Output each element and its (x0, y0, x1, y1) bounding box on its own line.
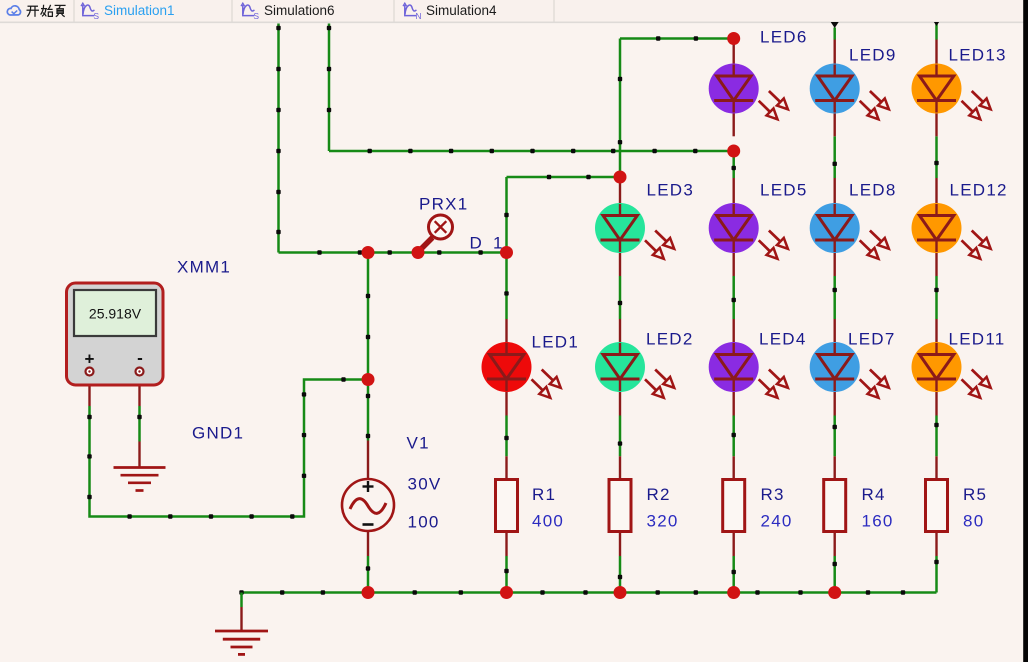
pin LED1 cathode (505, 379, 507, 416)
pin LED5 anode (733, 178, 735, 216)
wire V1 bottom to bus (367, 556, 370, 593)
svg-text:S: S (253, 11, 259, 21)
svg-text:LED1: LED1 (532, 333, 580, 352)
pin R3 bottom (733, 532, 735, 557)
pin LED4 anode (733, 319, 735, 355)
svg-text:GND1: GND1 (192, 424, 244, 443)
resistor R1 (496, 480, 518, 532)
wire LED9 top stub (833, 28, 836, 40)
wire junction dots (547, 175, 591, 179)
wire LED8 to LED7 (833, 276, 836, 319)
wire y=151 horizontal (329, 150, 734, 153)
pin R4 bottom (834, 532, 836, 557)
pin R3 top (733, 456, 735, 479)
junction bus R1 (500, 586, 513, 599)
junction bus R4 (828, 586, 841, 599)
svg-text:R5: R5 (963, 485, 987, 504)
wire R2 to bus (619, 556, 622, 593)
LED LED9 (810, 64, 889, 120)
probe PRX1 (421, 215, 453, 250)
tab Simulation6 icon (241, 3, 254, 15)
pin LED4 cathode (733, 379, 735, 416)
wire junction dots (618, 301, 622, 305)
LED LED12 (912, 203, 991, 259)
pin LED3 anode (619, 177, 621, 216)
pin V1 bottom (367, 531, 369, 556)
wire LED5 to LED4 (732, 276, 735, 319)
wire junction dots (833, 162, 837, 166)
wire junction dots (934, 288, 938, 292)
svg-text:N: N (415, 11, 421, 21)
pin LED12 anode (935, 178, 937, 216)
wire y=177 (507, 176, 621, 179)
junction PRX1 attach (412, 246, 425, 259)
svg-text:160: 160 (862, 512, 894, 531)
pin XMM1 + (88, 376, 90, 407)
wire junction dots (504, 569, 508, 573)
wire x=620 vertical to LED3 net (619, 39, 622, 178)
right edge dark panel border (1023, 0, 1028, 662)
wire junction dots (934, 161, 938, 165)
tab Simulation4 icon (403, 3, 416, 15)
pin LED9 cathode (834, 101, 836, 137)
pin LED6 cathode (733, 101, 735, 137)
pin R2 top (619, 456, 621, 479)
svg-text:R1: R1 (532, 485, 556, 504)
svg-text:Simulation4: Simulation4 (426, 3, 497, 18)
wire y=38.5 to LED6 top (620, 37, 734, 40)
resistor R3 (723, 480, 745, 532)
wire junction dots (366, 566, 370, 570)
svg-text:+: + (85, 350, 95, 369)
LED LED2 (595, 342, 674, 398)
wire LED2 to R2 (619, 416, 622, 457)
wire junction dots (327, 26, 331, 112)
wire LED7 to R4 (833, 416, 836, 457)
pin LED5 cathode (733, 240, 735, 276)
wire ground bus (242, 591, 937, 594)
junction bus R2 (614, 586, 627, 599)
pin LED13 anode (935, 40, 937, 77)
pin LED11 anode (935, 319, 937, 355)
wire junction dots (618, 441, 622, 445)
junction V1 branch (362, 246, 375, 259)
wire junction dots (504, 291, 508, 295)
wire junction dots (239, 590, 905, 594)
junction LED6 bottom (727, 145, 740, 158)
pin LED8 anode (834, 178, 836, 216)
svg-text:LED11: LED11 (949, 330, 1006, 349)
pin LED6 anode (733, 39, 735, 77)
wire junction dots (732, 166, 736, 170)
tab Simulation1 icon (81, 3, 94, 15)
wire x=506 from y=177 to D_1 (505, 177, 508, 253)
svg-text:LED6: LED6 (760, 28, 808, 47)
pin R1 bottom (505, 532, 507, 557)
svg-text:25.918V: 25.918V (89, 306, 142, 322)
pin GND1 (138, 442, 140, 469)
LED LED5 (709, 203, 788, 259)
svg-text:80: 80 (963, 512, 984, 531)
junction bus V1 (362, 586, 375, 599)
voltage source V1 (342, 479, 394, 531)
wire R1 to bus (505, 556, 508, 593)
svg-text:LED4: LED4 (759, 330, 807, 349)
wire LED11 to R5 (935, 416, 938, 457)
LED LED6 (709, 64, 788, 120)
wire junction dots (87, 377, 345, 518)
svg-text:R4: R4 (862, 485, 886, 504)
wire LED4 to R3 (732, 416, 735, 457)
pin R4 top (834, 456, 836, 479)
LED LED8 (810, 203, 889, 259)
pin R5 top (935, 456, 937, 479)
wire LED3 to LED2 (619, 276, 622, 319)
home tab label 开始页 (27, 5, 66, 17)
svg-text:V1: V1 (407, 434, 430, 453)
resistor R2 (609, 480, 631, 532)
wire LED13 top stub (935, 23, 938, 40)
wire R5 to bus (935, 556, 938, 593)
pin V1 top (367, 441, 369, 480)
wire R4 to bus (833, 556, 836, 593)
svg-text:R2: R2 (647, 485, 671, 504)
pin LED11 cathode (935, 379, 937, 416)
wire D_1 down to LED1 (505, 253, 508, 320)
dangling wire end marker LED9 (831, 22, 839, 28)
svg-text:LED12: LED12 (950, 181, 1008, 200)
svg-text:LED2: LED2 (646, 330, 694, 349)
pin R5 bottom (935, 532, 937, 557)
LED LED3 (595, 203, 674, 259)
junction left loop to V1 (362, 373, 375, 386)
wire junction dots (137, 415, 141, 419)
svg-text:LED9: LED9 (849, 46, 897, 65)
svg-text:100: 100 (408, 513, 440, 532)
pin ground bottom (240, 607, 242, 631)
svg-text:400: 400 (532, 512, 564, 531)
wire junction dots (366, 294, 370, 438)
pin LED2 cathode (619, 379, 621, 416)
svg-text:Simulation1: Simulation1 (104, 3, 175, 18)
LED LED13 (912, 64, 991, 120)
svg-text:D: D (470, 234, 484, 253)
junction LED3 net (614, 171, 627, 184)
wire LED1 to R1 (505, 416, 508, 457)
wire junction dots (618, 575, 622, 579)
svg-text:LED13: LED13 (949, 46, 1007, 65)
wire junction dots (618, 77, 622, 145)
pin LED2 anode (619, 319, 621, 355)
LED LED7 (810, 342, 889, 398)
svg-text:R3: R3 (761, 485, 785, 504)
wire junction dots (934, 423, 938, 427)
pin LED1 anode (505, 319, 507, 355)
dangling wire end marker LED13 (934, 22, 939, 26)
svg-text:Simulation6: Simulation6 (264, 3, 335, 18)
svg-text:240: 240 (761, 512, 793, 531)
pin R2 bottom (619, 532, 621, 557)
wire net to PRX1 (left vertical) (277, 24, 280, 253)
node D_1 junction (500, 246, 513, 259)
LED LED1 (482, 342, 561, 398)
svg-text:LED8: LED8 (849, 181, 897, 200)
wire junction dots (368, 149, 698, 153)
wire junction dots (656, 36, 698, 40)
wire junction dots (732, 570, 736, 574)
pin R1 top (505, 456, 507, 479)
wire junction dots (504, 436, 508, 440)
pin LED9 anode (834, 40, 836, 77)
wire LED6 to LED5 (732, 151, 735, 178)
pin XMM1 - (138, 376, 140, 407)
svg-text:-: - (137, 349, 143, 368)
junction bus R3 (727, 586, 740, 599)
tab bar (0, 0, 1028, 22)
svg-text:PRX1: PRX1 (419, 195, 468, 214)
wire LED12 to LED11 (935, 276, 938, 319)
wire junction dots (504, 213, 508, 217)
pin LED13 cathode (935, 101, 937, 137)
pin LED7 cathode (834, 379, 836, 416)
wire LED13 to LED12 (935, 136, 938, 178)
resistor R5 (926, 480, 948, 532)
wire junction dots (317, 250, 483, 254)
svg-text:LED5: LED5 (760, 181, 808, 200)
wire junction dots (833, 288, 837, 292)
pin LED12 cathode (935, 240, 937, 276)
multimeter XMM1 (67, 283, 164, 385)
wire V1 branch upper (367, 253, 370, 441)
wire junction dots (732, 298, 736, 302)
wire bus to ground symbol (240, 593, 243, 608)
wire junction dots (833, 425, 837, 429)
svg-text:320: 320 (647, 512, 679, 531)
LED LED4 (709, 342, 788, 398)
ground (bottom) (215, 631, 268, 654)
pin LED8 cathode (834, 240, 836, 276)
wire junction dots (934, 560, 938, 564)
wire junction dots (732, 433, 736, 437)
svg-text:30V: 30V (408, 475, 442, 494)
pin LED3 cathode (619, 240, 621, 276)
cloud icon (home tab) (7, 6, 20, 15)
pin LED7 anode (834, 319, 836, 355)
ground GND1 (114, 468, 166, 491)
resistor R4 (824, 480, 846, 532)
LED LED11 (912, 342, 991, 398)
wire multimeter - terminal to GND1 (138, 406, 141, 442)
wire second left vertical (328, 24, 331, 152)
svg-text:XMM1: XMM1 (177, 258, 231, 277)
wire R3 to bus (732, 556, 735, 593)
wire LED9 to LED8 (833, 136, 836, 178)
svg-text:LED7: LED7 (848, 330, 896, 349)
junction LED6 top (727, 32, 740, 45)
wire bottom-left loop from multimeter + terminal (90, 380, 369, 517)
svg-text:S: S (93, 11, 99, 21)
wire junction dots (833, 562, 837, 566)
svg-text:LED3: LED3 (647, 181, 695, 200)
wire junction dots (276, 26, 280, 234)
wire y=252 to node D_1 (279, 251, 507, 254)
